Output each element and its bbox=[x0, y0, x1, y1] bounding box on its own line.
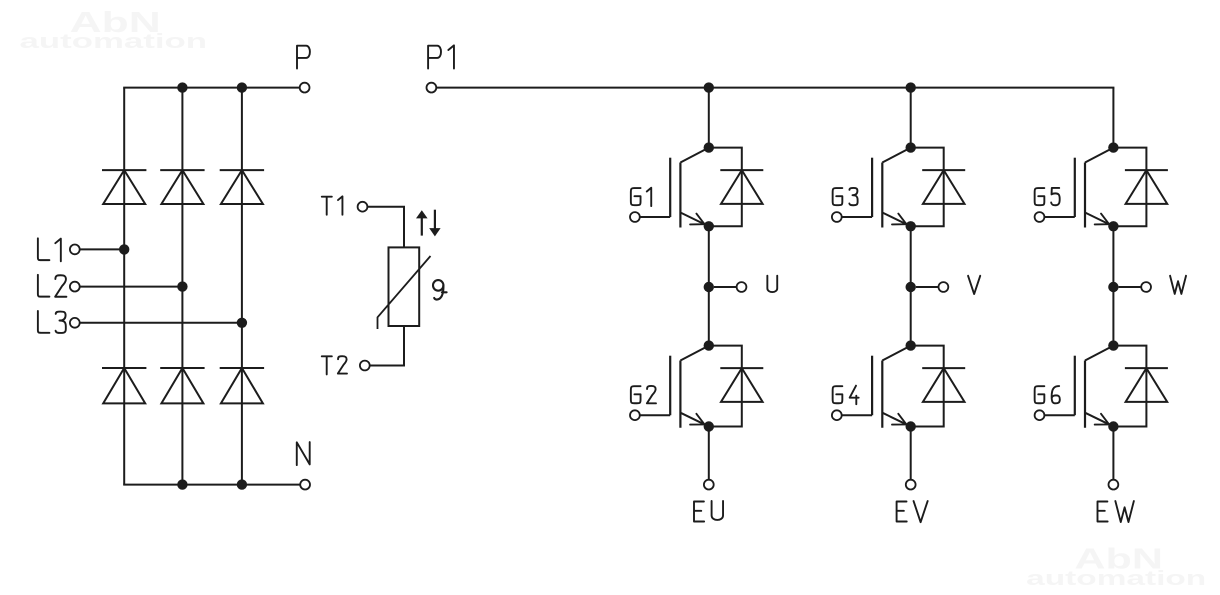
junction: upper collector node leg 1 bbox=[704, 142, 714, 152]
freewheel diode DF6 bbox=[1125, 367, 1168, 369]
junction: lower emitter node leg 1 bbox=[704, 421, 714, 431]
wire: negative rail of rectifier (to N) bbox=[123, 484, 300, 486]
label EW bbox=[1098, 501, 1108, 521]
junction: lower collector node leg 2 bbox=[906, 340, 916, 350]
label theta (temperature) bbox=[433, 280, 447, 299]
terminal G4 (gate) bbox=[832, 410, 842, 420]
wire: output node to terminal U bbox=[714, 286, 737, 288]
wire: upper emitter to output node U bbox=[708, 226, 710, 287]
wire: G4 gate lead bbox=[842, 414, 872, 416]
freewheel diode DF1 bbox=[720, 169, 763, 171]
terminal G3 (gate) bbox=[832, 212, 842, 222]
junction: node L3 bbox=[237, 318, 247, 328]
terminal P bbox=[300, 83, 310, 93]
IGBT transistor Q1 bbox=[670, 148, 709, 228]
diode D4 (lower rectifier, phase 1) bbox=[102, 367, 146, 369]
wire: upper emitter to output node V bbox=[910, 226, 912, 287]
junction: output node W bbox=[1108, 282, 1118, 292]
terminal U bbox=[737, 282, 747, 292]
terminal L1 bbox=[70, 245, 80, 255]
wire: freewheel diode branch DF4 bbox=[911, 346, 944, 427]
label P1 bbox=[428, 46, 441, 69]
wire: output node to terminal V bbox=[916, 286, 939, 288]
wire: thermistor bottom to T2 bbox=[370, 326, 404, 366]
wire: output node to lower collector leg 1 bbox=[708, 287, 710, 346]
terminal L2 bbox=[70, 282, 80, 292]
svg-text:automation: automation bbox=[20, 30, 208, 53]
terminal EV bbox=[906, 480, 916, 490]
logo watermark AbN automation (top-left) bbox=[20, 7, 208, 53]
IGBT transistor Q3 bbox=[872, 148, 911, 228]
junction: output node U bbox=[704, 282, 714, 292]
label G1 bbox=[631, 188, 641, 205]
wire: P1 rail drop to leg 2 bbox=[910, 88, 912, 148]
terminal W bbox=[1141, 282, 1151, 292]
label T1 bbox=[322, 197, 332, 215]
junction: upper collector node leg 3 bbox=[1108, 142, 1118, 152]
terminal P1 bbox=[427, 83, 437, 93]
wire: freewheel diode branch DF5 bbox=[1113, 148, 1146, 227]
label G5 bbox=[1035, 188, 1045, 205]
freewheel diode DF5 bbox=[1125, 169, 1168, 171]
junction: upper emitter node leg 3 bbox=[1108, 221, 1118, 231]
wire: lower emitter to terminal EW bbox=[1112, 427, 1114, 480]
terminal G6 (gate) bbox=[1035, 410, 1045, 420]
label N bbox=[297, 442, 310, 465]
junction: upper emitter node leg 1 bbox=[704, 221, 714, 231]
diode D5 (lower rectifier, phase 2) bbox=[160, 367, 204, 369]
label L2 bbox=[38, 275, 50, 297]
wire: positive rail of rectifier (to P) bbox=[123, 87, 300, 89]
wire: G6 gate lead bbox=[1044, 414, 1074, 416]
label U bbox=[767, 276, 777, 292]
diode D2 (upper rectifier, phase 2) bbox=[160, 169, 204, 171]
IGBT transistor Q6 bbox=[1075, 346, 1114, 428]
wire: P1 rail drop to leg 3 bbox=[1112, 88, 1114, 148]
wire: freewheel diode branch DF2 bbox=[709, 346, 742, 427]
wire: G2 gate lead bbox=[640, 414, 670, 416]
junction: lower emitter node leg 2 bbox=[906, 421, 916, 431]
wire: T1 to thermistor top bbox=[367, 207, 404, 248]
junction: P1 rail / leg 2 bbox=[906, 82, 916, 92]
label V bbox=[968, 276, 980, 294]
junction: node L2 bbox=[177, 281, 187, 291]
wire: freewheel diode branch DF3 bbox=[911, 148, 944, 227]
junction: node L1 bbox=[119, 244, 129, 254]
IGBT transistor Q2 bbox=[670, 346, 709, 428]
freewheel diode DF3 bbox=[922, 169, 965, 171]
label G2 bbox=[631, 386, 641, 403]
junction: leg3 / negative rail bbox=[237, 479, 247, 489]
wire: upper emitter to output node W bbox=[1112, 226, 1114, 287]
label EV bbox=[897, 501, 907, 521]
diode D1 (upper rectifier, phase 1) bbox=[102, 169, 146, 171]
wire: output node to lower collector leg 3 bbox=[1112, 287, 1114, 346]
terminal T2 bbox=[360, 361, 370, 371]
terminal G2 (gate) bbox=[630, 410, 640, 420]
wire: freewheel diode branch DF6 bbox=[1113, 346, 1146, 427]
junction: leg2 / negative rail bbox=[177, 479, 187, 489]
wire: G3 gate lead bbox=[842, 216, 872, 218]
terminal G5 (gate) bbox=[1035, 212, 1045, 222]
thermistor RT1 diagonal stroke bbox=[378, 256, 431, 329]
wire: output node to terminal W bbox=[1119, 286, 1142, 288]
diode D3 (upper rectifier, phase 3) bbox=[220, 169, 264, 171]
wire: output node to lower collector leg 2 bbox=[910, 287, 912, 346]
terminal L3 bbox=[70, 318, 80, 328]
bidirectional arrows (temperature dependence) bbox=[421, 217, 423, 236]
label L3 bbox=[38, 311, 50, 333]
thermistor RT1 body bbox=[389, 247, 420, 326]
wire: rectifier phase leg 2 vertical bbox=[181, 88, 183, 485]
terminal V bbox=[939, 282, 949, 292]
wire: L3 to rectifier leg 3 bbox=[80, 322, 242, 324]
junction: upper emitter node leg 2 bbox=[906, 221, 916, 231]
terminal EW bbox=[1109, 480, 1119, 490]
wire: lower emitter to terminal EV bbox=[910, 427, 912, 480]
junction: lower emitter node leg 3 bbox=[1108, 421, 1118, 431]
wire: L2 to rectifier leg 2 bbox=[80, 286, 183, 288]
junction: output node V bbox=[906, 282, 916, 292]
junction: leg2 / positive rail bbox=[177, 82, 187, 92]
label W bbox=[1170, 276, 1186, 294]
terminal G1 (gate) bbox=[630, 212, 640, 222]
junction: upper collector node leg 2 bbox=[906, 142, 916, 152]
freewheel diode DF2 bbox=[720, 367, 763, 369]
label G3 bbox=[833, 188, 843, 205]
terminal T1 bbox=[358, 202, 368, 212]
wire: rectifier phase leg 1 vertical bbox=[123, 88, 125, 485]
IGBT transistor Q5 bbox=[1075, 148, 1114, 228]
wire: G1 gate lead bbox=[640, 216, 670, 218]
freewheel diode DF4 bbox=[922, 367, 965, 369]
wire: rectifier phase leg 3 vertical bbox=[241, 88, 243, 485]
wire: freewheel diode branch DF1 bbox=[709, 148, 742, 227]
wire: lower emitter to terminal EU bbox=[708, 427, 710, 480]
junction: lower collector node leg 3 bbox=[1108, 340, 1118, 350]
svg-text:automation: automation bbox=[1026, 567, 1206, 590]
label P bbox=[297, 46, 310, 69]
label T2 bbox=[322, 356, 332, 374]
wire: G5 gate lead bbox=[1044, 216, 1074, 218]
logo watermark AbN automation (bottom-right) bbox=[1026, 543, 1206, 590]
label EU bbox=[694, 501, 704, 521]
label G4 bbox=[833, 386, 843, 403]
diode D6 (lower rectifier, phase 3) bbox=[220, 367, 264, 369]
junction: leg3 / positive rail bbox=[237, 82, 247, 92]
wire: P1 rail bbox=[436, 87, 1114, 89]
wire: P1 rail drop to leg 1 bbox=[708, 88, 710, 148]
terminal EU bbox=[704, 480, 714, 490]
terminal N bbox=[300, 480, 310, 490]
junction: P1 rail / leg 1 bbox=[704, 82, 714, 92]
label G6 bbox=[1035, 386, 1045, 403]
IGBT transistor Q4 bbox=[872, 346, 911, 428]
wire: L1 to rectifier leg 1 bbox=[80, 248, 125, 250]
label L1 bbox=[38, 238, 50, 260]
junction: lower collector node leg 1 bbox=[704, 340, 714, 350]
